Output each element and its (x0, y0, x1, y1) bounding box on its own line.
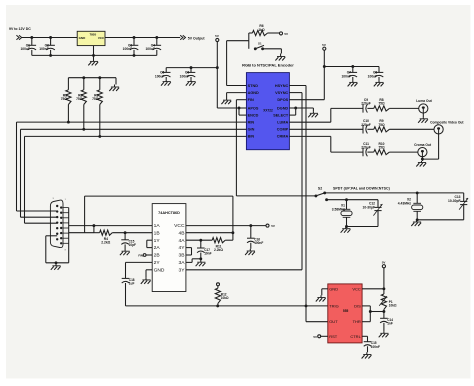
svg-text:5V: 5V (284, 32, 288, 36)
svg-text:9V to 12V DC: 9V to 12V DC (9, 27, 31, 31)
svg-text:COMP: COMP (277, 128, 289, 132)
svg-text:2B: 2B (154, 253, 160, 259)
svg-text:DGND: DGND (277, 106, 288, 110)
wire C5 C6 rail (166, 67, 217, 69)
wire branch up to R6 (248, 33, 250, 41)
svg-text:100uF: 100uF (20, 47, 30, 51)
svg-text:SELECT: SELECT (273, 113, 289, 117)
svg-text:GND: GND (329, 286, 338, 291)
ground VGA (55, 263, 57, 266)
capacitor C12 trimmer (377, 200, 379, 208)
wire 5V to VCC (383, 268, 385, 289)
wire U4 GND (322, 288, 328, 290)
junction 5V C5C6 rail (216, 66, 219, 69)
svg-text:GND: GND (154, 267, 165, 273)
junction C15 tap (124, 231, 127, 234)
wire input to 7805 (22, 37, 77, 39)
svg-text:100nF: 100nF (254, 241, 263, 245)
resistor R3 (99, 78, 101, 90)
connector J2 output chevrons (180, 35, 183, 40)
capacitor C14 (383, 312, 385, 319)
wire PAL rail (325, 192, 464, 194)
wire NTSC rail (327, 199, 378, 201)
svg-text:VCC: VCC (174, 223, 185, 229)
resistor R6 (252, 30, 267, 35)
wire VGA ground loop (46, 235, 57, 237)
wire R4 to 1B (112, 232, 152, 234)
ground C14 (383, 331, 385, 333)
svg-text:3B: 3B (179, 253, 185, 259)
wire VCC to 5V node (186, 225, 266, 227)
svg-text:3.58MHz: 3.58MHz (332, 207, 346, 211)
resistor R8 (374, 106, 390, 111)
ground DGND (312, 111, 314, 113)
junction rail C7 (351, 65, 354, 68)
svg-text:BIN: BIN (248, 135, 255, 139)
wire 4A R11 (186, 239, 212, 241)
wire S1 to ground (263, 48, 282, 50)
svg-text:GIN: GIN (248, 128, 255, 132)
svg-text:3Y: 3Y (179, 267, 186, 273)
svg-text:75Ω: 75Ω (76, 97, 83, 101)
svg-text:100nF: 100nF (341, 74, 351, 78)
capacitor C5 (165, 68, 167, 73)
wire vsync in (69, 232, 94, 234)
svg-text:THR: THR (353, 319, 361, 324)
wire C7 C8 rail (324, 66, 379, 68)
capacitor C3 (133, 38, 135, 46)
svg-text:2.2kΩ: 2.2kΩ (214, 248, 223, 252)
wire X2 bottom rail (417, 219, 464, 221)
wire AGND to ground (227, 92, 247, 94)
svg-text:100nF: 100nF (123, 47, 133, 51)
resistor R1 (67, 78, 69, 90)
connector J3 left pin dots (56, 205, 58, 207)
svg-text:555: 555 (343, 309, 349, 313)
junction DIS THR (369, 310, 372, 313)
junction HSYNC trig (305, 304, 308, 307)
junction Croma ground (421, 158, 424, 161)
wire hsync in (69, 225, 153, 227)
svg-text:DPOS: DPOS (277, 98, 288, 102)
svg-text:TRIG: TRIG (329, 303, 339, 308)
svg-text:75Ω: 75Ω (378, 102, 385, 106)
wire VSYNC down to 3Y (289, 92, 302, 94)
svg-text:100nF: 100nF (180, 74, 190, 78)
svg-text:75Ω: 75Ω (92, 97, 99, 101)
capacitor C19 (364, 341, 372, 343)
capacitor C16 (250, 226, 252, 239)
wire DPOS to 5V rail (289, 99, 324, 101)
timer U4 555 body (328, 284, 362, 343)
capacitor C10 (362, 125, 364, 133)
ground C6 (190, 80, 192, 82)
wire 7805 output (105, 37, 180, 39)
node R12 top (217, 283, 220, 286)
svg-text:220uF: 220uF (361, 146, 371, 150)
ground terminator rail (114, 85, 116, 88)
svg-text:DIS: DIS (354, 303, 361, 308)
wire 2Y to C18 (126, 261, 153, 263)
capacitor C7 (352, 67, 354, 73)
capacitor C11 (362, 148, 364, 156)
junction hsync R4 branch (92, 224, 95, 227)
svg-text:10kΩ: 10kΩ (389, 304, 397, 308)
svg-text:3A: 3A (179, 260, 186, 266)
ground C5 (165, 80, 167, 82)
svg-text:75Ω: 75Ω (378, 123, 385, 127)
wire C11 to R10 (367, 151, 373, 153)
wire C9 to R8 (367, 107, 373, 109)
svg-text:220uF: 220uF (361, 102, 371, 106)
wire RIN bus (17, 121, 247, 123)
svg-text:100nF: 100nF (371, 345, 380, 349)
wire FIN down to S2 (236, 99, 246, 101)
junction rail R3 (98, 76, 101, 79)
regulator U2 7805 (77, 31, 105, 45)
wire GIN bus (21, 128, 247, 130)
svg-text:10-30pF: 10-30pF (448, 199, 460, 203)
svg-text:GND: GND (79, 36, 87, 40)
node FIN net label (146, 254, 152, 256)
ground power rail (93, 55, 95, 61)
svg-text:VCC: VCC (352, 286, 361, 291)
wire X1 bottom rail (347, 226, 379, 228)
junction 5V rail (323, 65, 326, 68)
resistor R12 (217, 286, 219, 288)
switch S1 (254, 47, 257, 50)
op-amp U1 encoder body (246, 73, 289, 150)
svg-text:RST: RST (329, 334, 338, 339)
svg-text:RGB to NTSC/PAL Encoder: RGB to NTSC/PAL Encoder (242, 63, 294, 68)
svg-text:10-30pF: 10-30pF (363, 205, 375, 209)
connector J3 right pins (60, 206, 62, 208)
ground Croma (421, 161, 423, 163)
junction VCC P1 (382, 287, 385, 290)
resistor R4 (94, 232, 100, 234)
ground C19 (366, 352, 368, 354)
junction gnd rail C3 (133, 54, 136, 57)
junction R3 bus (98, 135, 101, 138)
ground C17 3A (200, 259, 202, 262)
svg-text:100uF: 100uF (155, 74, 165, 78)
wire R4 branch drop (93, 226, 95, 233)
connector Composite jack (434, 125, 443, 134)
wire 3A to ground (186, 261, 192, 263)
capacitor C2 (50, 38, 52, 46)
crystal X2 (416, 193, 418, 203)
wire Croma shield (421, 157, 423, 159)
svg-text:OUT: OUT (329, 319, 338, 324)
wire STND to branch (227, 85, 247, 87)
resistor R9 (374, 127, 390, 132)
svg-text:100nF: 100nF (39, 47, 49, 51)
ground X1 (345, 227, 347, 229)
resistor R10 (374, 150, 390, 155)
junction C16 tap (249, 224, 252, 227)
logic U3 74AHCT86D body (152, 204, 186, 292)
svg-text:Composite Video Out: Composite Video Out (430, 121, 464, 125)
wire 4Y 3B tie (186, 247, 192, 249)
svg-text:S1: S1 (258, 41, 262, 45)
capacitor C8 (378, 67, 380, 73)
svg-text:1nF: 1nF (387, 321, 393, 325)
wire APOS ENCD tie to 5V (217, 107, 239, 109)
svg-text:FIN: FIN (248, 98, 254, 102)
connector Luma Out jack (419, 104, 428, 113)
wire BIN bus (25, 135, 247, 137)
capacitor C9 (362, 104, 364, 112)
svg-text:AGND: AGND (248, 91, 259, 95)
junction output C3 (133, 36, 136, 39)
wire U3 GND (146, 269, 152, 271)
svg-text:4B: 4B (179, 230, 185, 236)
svg-text:XX722: XX722 (263, 109, 273, 113)
svg-text:100uF: 100uF (145, 47, 155, 51)
junction rail C6 (190, 66, 193, 69)
ground C8 (378, 80, 380, 82)
svg-text:2Y: 2Y (154, 260, 161, 266)
junction gnd rail C2 (49, 54, 52, 57)
junction APOS bracket (238, 107, 241, 110)
junction P1 bottom (382, 310, 385, 313)
svg-text:5V: 5V (382, 260, 386, 264)
svg-text:S2: S2 (318, 187, 322, 191)
junction R12 bottom (216, 304, 219, 307)
wire RST (321, 335, 328, 337)
junction X2 top (416, 191, 419, 194)
wire COMP (289, 128, 363, 130)
svg-text:LUMA: LUMA (277, 121, 288, 125)
svg-text:10nF: 10nF (204, 251, 211, 255)
junction input C1 (30, 36, 33, 39)
switch S2 (314, 194, 317, 197)
capacitor C13 trimmer (463, 193, 465, 202)
svg-text:5V: 5V (215, 34, 219, 38)
wire HSYNC to OUT (305, 306, 307, 322)
ground Luma (422, 117, 424, 119)
junction C17 tap (199, 239, 202, 242)
wire CRMA down (289, 135, 330, 137)
wire terminator rail (68, 77, 116, 79)
junction DGND bracket (294, 107, 297, 110)
junction X1 top (345, 198, 348, 201)
junction R2 bus (82, 128, 85, 131)
junction gnd rail stem (92, 54, 95, 57)
wire LUMA up (289, 121, 330, 123)
resistor R11 (212, 238, 225, 243)
svg-text:1uF: 1uF (129, 282, 135, 286)
svg-text:APOS: APOS (248, 106, 259, 110)
capacitor C4 (156, 38, 158, 46)
wire C10 to R9 (367, 128, 373, 130)
svg-text:CTRL: CTRL (350, 334, 361, 339)
node 5V R6 (279, 32, 282, 35)
wire vsync to 4B riser (84, 196, 86, 233)
wire CTRL (362, 335, 367, 337)
junction rail R2 (82, 76, 85, 79)
svg-text:10pF: 10pF (129, 243, 136, 247)
resistor R2 (83, 78, 85, 90)
wire R6 to 5V node (268, 32, 280, 34)
connector Croma jack (418, 148, 427, 157)
wire 5V node down to APOS (216, 42, 218, 108)
junction 4B riser (231, 231, 234, 234)
svg-text:100uF: 100uF (368, 74, 378, 78)
connector J3 VGA outline (50, 200, 63, 248)
svg-text:1B: 1B (154, 230, 160, 236)
svg-text:5V: 5V (313, 335, 317, 339)
svg-text:Croma Out: Croma Out (414, 143, 432, 147)
junction VGA ground (55, 261, 58, 264)
potentiometer P1 wiper arrow (379, 296, 387, 306)
connector J1 input chevrons (16, 35, 19, 40)
svg-text:1kΩ: 1kΩ (258, 28, 265, 32)
junction X1 bottom (345, 225, 348, 228)
potentiometer P1 (383, 289, 385, 294)
wire R8 to Luma jack (389, 107, 418, 109)
svg-text:10kΩ: 10kΩ (221, 296, 229, 300)
svg-text:4A: 4A (179, 238, 186, 244)
svg-text:ENCD: ENCD (248, 113, 259, 117)
ground S1 (280, 54, 282, 57)
junction 3A gnd node (199, 257, 202, 260)
wire Composite shield (438, 134, 440, 159)
svg-text:75Ω: 75Ω (61, 97, 68, 101)
junction output C4 (155, 36, 158, 39)
wire 3Y to VSYNC riser (186, 269, 302, 271)
svg-text:VCC: VCC (98, 36, 105, 40)
junction R1 bus (67, 121, 70, 124)
svg-text:5V: 5V (271, 224, 275, 228)
svg-text:220uF: 220uF (361, 123, 371, 127)
node 5V U3 (266, 224, 269, 227)
crystal X1 (346, 200, 348, 210)
wire 1Y 2A tie (147, 239, 152, 241)
svg-text:2.2kΩ: 2.2kΩ (101, 241, 110, 245)
wire Luma shield (422, 113, 424, 117)
wire 5V stem (323, 50, 325, 66)
svg-text:FIN: FIN (138, 253, 143, 257)
junction input C2 (49, 36, 52, 39)
svg-text:VSYNC: VSYNC (275, 91, 288, 95)
wire 7805 tab to gnd rail (93, 46, 95, 56)
svg-text:STND: STND (248, 84, 259, 88)
wire gnd rail (32, 54, 157, 56)
svg-text:Luma Out: Luma Out (416, 99, 432, 103)
wire VGA shield bus (68, 208, 70, 263)
svg-text:75Ω: 75Ω (378, 146, 385, 150)
wire DIS THR tie (362, 305, 370, 307)
junction X2 bottom (416, 218, 419, 221)
svg-text:SPDT (UP:PAL and DOWN:NTSC): SPDT (UP:PAL and DOWN:NTSC) (333, 187, 391, 191)
ground AGND (226, 97, 228, 100)
svg-text:RIN: RIN (248, 121, 255, 125)
capacitor C6 (190, 68, 192, 73)
svg-text:1Y: 1Y (154, 238, 161, 244)
capacitor C17 (200, 240, 202, 248)
wire rail to ground (115, 78, 117, 85)
svg-text:74AHCT86D: 74AHCT86D (158, 211, 180, 215)
wire VCC pin (362, 288, 384, 290)
wire R9 to Composite jack (389, 128, 434, 130)
svg-text:4Y: 4Y (179, 245, 186, 251)
wire DGND SELECT tie (289, 107, 295, 109)
wire R10 to Croma jack (389, 151, 417, 153)
wire trigger net (126, 305, 328, 307)
svg-text:7805: 7805 (89, 32, 96, 36)
svg-text:2A: 2A (154, 245, 161, 251)
svg-text:CRMA: CRMA (277, 135, 289, 139)
wire HSYNC down (289, 85, 306, 87)
svg-text:1A: 1A (154, 223, 161, 229)
capacitor C18 (122, 277, 130, 279)
svg-text:HSYNC: HSYNC (275, 84, 289, 88)
ground U4 (320, 295, 322, 297)
ground U3 (145, 277, 147, 280)
ground C16 (249, 249, 251, 251)
svg-text:5V: 5V (322, 43, 326, 47)
capacitor C1 (31, 38, 33, 46)
capacitor C15 (124, 233, 126, 240)
wire 4B (186, 232, 233, 234)
svg-text:5V Output: 5V Output (188, 37, 206, 41)
ground X2 (416, 220, 418, 222)
svg-text:4.43MHz: 4.43MHz (398, 201, 412, 205)
ground C15 (124, 249, 126, 251)
ground C7 (352, 80, 354, 82)
